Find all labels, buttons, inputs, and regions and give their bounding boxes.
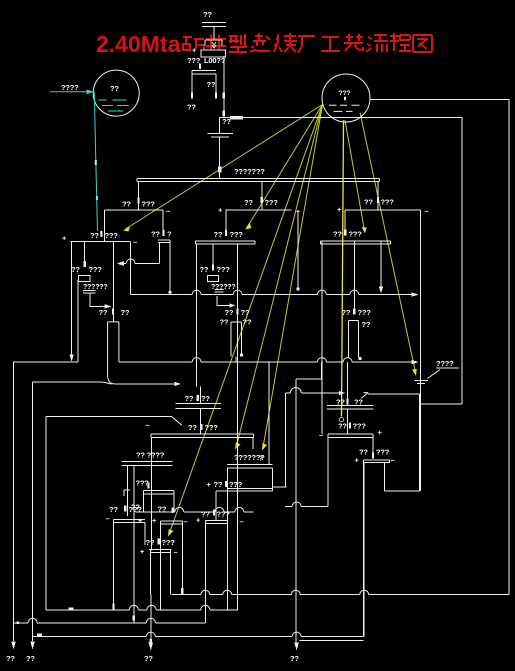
svg-text:–: – (133, 238, 137, 247)
N4 corner up is vessel E left (362, 461, 364, 637)
tick (84, 261, 86, 267)
title glyph jing (206, 35, 226, 52)
title glyph xuan (250, 33, 270, 52)
svg-text:??: ?? (207, 80, 216, 89)
screen box2 double line (192, 70, 216, 92)
svg-text:???: ??? (105, 231, 119, 240)
right screen overflow drop (long) (419, 210, 421, 491)
svg-text:??: ?? (121, 308, 130, 317)
svg-text:???: ??? (89, 265, 103, 274)
svg-text:??????: ?????? (83, 284, 107, 291)
svg-text:??: ?? (26, 654, 35, 663)
junction dot (169, 291, 172, 294)
arrow right (230, 303, 236, 307)
right clarified water tank circle (322, 74, 370, 122)
discharge with arrow (150, 595, 152, 642)
jig refuse drop line (130, 241, 132, 294)
flotation right stub (252, 437, 254, 449)
tick vessel D (113, 604, 115, 610)
arrow right (105, 304, 112, 308)
bus N2 wire hops (129, 605, 210, 610)
MID (14, 244, 419, 644)
vessel W1 sump (108, 322, 119, 384)
svg-text:???????: ??????? (234, 167, 265, 176)
drop from plates (127, 465, 129, 516)
long drop mid jig to flotation (237, 244, 239, 611)
bottom slurry bus hops (175, 507, 244, 512)
tailings T symbol (415, 380, 428, 383)
refuse bus D (46, 417, 182, 426)
svg-text:??: ?? (364, 198, 373, 207)
vessel v3 (231, 322, 241, 362)
svg-text:??: ?? (187, 103, 196, 112)
wire to tank (220, 117, 462, 119)
svg-text:??: ?? (151, 230, 160, 239)
left frame line 3 (45, 417, 47, 610)
wire (213, 27, 215, 40)
drop mid screen to jig (225, 210, 227, 230)
svg-text:???: ??? (162, 538, 176, 547)
vessel E left side long (363, 463, 365, 637)
ray to center filter (circle end) (342, 120, 344, 416)
filter plates mid (175, 404, 221, 409)
svg-text:–: – (319, 431, 323, 440)
junction tick (377, 197, 379, 203)
tick vessel B (181, 588, 183, 594)
svg-text:??: ?? (244, 198, 253, 207)
ray to right thickener (360, 113, 415, 372)
svg-text:??: ?? (201, 510, 210, 519)
tick on N4 (37, 634, 42, 637)
bottom bus N2 (46, 609, 237, 611)
tick (372, 453, 374, 459)
svg-text:??: ?? (214, 230, 223, 239)
drop jig to vessel W1 (113, 241, 115, 322)
water level dashes cyan (99, 100, 129, 111)
recycle wire into W1 drop (122, 243, 160, 264)
vessel C (205, 520, 227, 622)
drop with arrow into bus A (380, 241, 382, 288)
bus N1 wire hops (201, 590, 369, 595)
wire tank lower to frame (461, 118, 463, 404)
slurry bus A with hops (131, 294, 414, 296)
product arrow filter cake (149, 643, 154, 651)
slurry bus B with hops (119, 361, 414, 363)
arrow block on wire (230, 116, 243, 119)
title glyph chang (298, 36, 315, 53)
svg-text:??: ?? (99, 308, 108, 317)
svg-text:??: ?? (222, 117, 231, 126)
svg-text:???: ??? (187, 56, 201, 65)
svg-text:2.40Mta: 2.40Mta (96, 31, 181, 57)
drop bar to concentrate bar (372, 437, 374, 458)
svg-text:???: ??? (205, 423, 219, 432)
drop left screen to jig (103, 210, 105, 241)
svg-text:???: ??? (217, 265, 231, 274)
mid centrifuge plates (215, 290, 224, 293)
left drop of bar to hline (327, 437, 329, 506)
svg-text:??: ?? (290, 654, 299, 663)
drop to right screen (377, 181, 379, 209)
wire tank to right frame top (371, 99, 510, 595)
arrow bus B (412, 360, 419, 364)
tick (150, 639, 152, 643)
ray to mid screen (247, 105, 323, 228)
drop to elevator (84, 241, 86, 266)
leader line (428, 370, 441, 379)
tick on drop (133, 616, 135, 621)
drop mid screen overflow (297, 210, 299, 290)
junction tick (138, 198, 140, 204)
svg-text:??: ?? (188, 423, 197, 432)
svg-text:??: ?? (359, 448, 368, 457)
junction dot (16, 621, 19, 624)
svg-text:??: ?? (243, 318, 252, 327)
ray to left screen (126, 105, 323, 230)
svg-text:?? ????: ?? ???? (136, 451, 165, 460)
svg-text:??: ?? (362, 320, 371, 329)
svg-text:??: ?? (220, 318, 229, 327)
svg-text:??: ?? (144, 654, 153, 663)
vessel D (114, 519, 145, 610)
svg-text:–: – (166, 207, 170, 216)
left screen bar (104, 209, 163, 211)
arrow pump outlet (339, 391, 346, 395)
svg-text:????: ???? (61, 83, 79, 92)
svg-text:??: ?? (185, 394, 194, 403)
drop to vessel v4 (353, 241, 355, 309)
svg-text:??: ?? (214, 480, 223, 489)
feed plate symbol (202, 23, 226, 27)
svg-text:??: ?? (201, 394, 210, 403)
mid-box bottom bar (216, 489, 273, 491)
arrow down onto drain (69, 355, 73, 362)
title glyph xing (229, 34, 247, 52)
bottom bus N1 main (172, 594, 509, 596)
TOP ASSEMBLY (187, 10, 462, 178)
svg-text:??: ?? (203, 10, 212, 19)
YELLOW RAYS (123, 105, 417, 537)
drop to left screen (138, 181, 140, 210)
water level dashes white (329, 105, 360, 111)
svg-text:??: ?? (71, 265, 80, 274)
svg-text:??: ?? (200, 265, 209, 274)
left water tank circle (93, 70, 139, 116)
link hline to frame (420, 403, 462, 405)
wire centrifuge out (90, 293, 107, 306)
RIGHT (285, 210, 462, 636)
ray to right screen (345, 120, 365, 230)
tick (147, 483, 149, 489)
hline with hop over pump line (285, 506, 328, 508)
left frame line 2 (33, 382, 103, 641)
wire centrifuge out (217, 296, 233, 305)
title glyph cheng (390, 33, 411, 51)
bus C sump drain (115, 383, 177, 385)
svg-text:??: ?? (122, 200, 131, 209)
svg-text:???: ??? (381, 198, 395, 207)
title glyph liu (366, 35, 388, 52)
screen center chevrons (212, 42, 216, 48)
svg-text:??: ?? (333, 230, 342, 239)
vessel B (161, 521, 183, 610)
svg-text:??: ?? (338, 422, 347, 431)
filter plates right (327, 406, 374, 409)
svg-text:L00??: L00?? (204, 56, 226, 65)
svg-text:–: – (184, 517, 188, 526)
svg-text:–: – (391, 456, 395, 465)
drop jig left product (71, 241, 73, 356)
drop from vacuum plates (133, 465, 135, 622)
drop from bus C to filter cap (200, 386, 202, 434)
drop mid jig left (196, 244, 198, 387)
title text 2.40Mta (96, 31, 432, 57)
vessel E right side (384, 463, 386, 491)
svg-text:???: ??? (339, 90, 351, 97)
wire right branch (220, 56, 224, 133)
pump riser line (295, 379, 297, 644)
LEFT COLUMN (69, 210, 172, 384)
drop mid elevator (212, 244, 214, 266)
ray to mid-bottom cell B (263, 105, 323, 448)
title glyph gong (321, 37, 340, 51)
title glyph kuang (183, 37, 205, 52)
vessel F (149, 550, 172, 595)
short bottom line (299, 639, 363, 641)
bracket mark (124, 490, 130, 496)
svg-text:??: ?? (109, 505, 118, 514)
left frame line 1 (13, 362, 15, 641)
flotation bar left (151, 434, 254, 438)
bus N4 wire hops (146, 632, 301, 637)
bottom bus N3 (14, 622, 206, 624)
mid-box flotation cell (227, 465, 272, 611)
title glyph mei (274, 33, 297, 52)
svg-text:???: ??? (229, 480, 243, 489)
arrow bus C (175, 382, 182, 386)
drop from bus B to mid-box (268, 362, 270, 465)
drop to mid screen (261, 181, 263, 209)
junction tick (218, 167, 222, 173)
arrow down (30, 642, 35, 650)
title glyph yi (344, 34, 363, 51)
step vline (284, 393, 286, 487)
svg-text:???: ??? (358, 308, 372, 317)
svg-text:?: ? (167, 230, 172, 239)
elevator box (79, 276, 90, 282)
right screen bar (345, 209, 420, 211)
bus B wire hops (192, 358, 352, 363)
svg-text:???: ??? (230, 230, 244, 239)
svg-text:???: ??? (142, 200, 156, 209)
concentrate bar (364, 460, 390, 463)
bottom bus N4 (33, 636, 363, 638)
right jig bar (321, 241, 391, 244)
pump outlet hop (290, 388, 301, 394)
recycle wire hop (126, 259, 135, 264)
svg-text:??: ?? (342, 308, 351, 317)
svg-text:???: ??? (217, 510, 231, 519)
vessel v4 (349, 321, 359, 358)
svg-text:??: ?? (6, 654, 15, 663)
svg-text:–: – (174, 548, 178, 557)
tick (212, 265, 214, 271)
crusher box (201, 50, 225, 57)
svg-text:??: ?? (90, 231, 99, 240)
svg-text:??: ?? (146, 538, 155, 547)
tick (240, 354, 243, 357)
step hline (273, 486, 287, 488)
wire flag to box (368, 393, 420, 395)
junction tick on N2 (69, 608, 74, 611)
press box (385, 394, 420, 491)
mid elevator box (207, 275, 218, 281)
cyan feed arrow (50, 91, 88, 93)
vessel A (144, 490, 174, 512)
tick arrows under box2 (191, 93, 193, 99)
svg-text:???: ??? (136, 479, 150, 488)
svg-text:??: ?? (241, 308, 250, 317)
screen hat symbol (205, 40, 222, 46)
svg-text:–: – (146, 421, 150, 430)
svg-text:????: ???? (436, 359, 454, 368)
jig refuse vessel v2 (158, 240, 170, 295)
flotation left drop (151, 437, 153, 550)
bus N3 wire hops (28, 618, 155, 623)
junction dot (359, 357, 362, 360)
svg-text:???: ??? (129, 505, 143, 514)
arrow down (11, 642, 16, 650)
junction dot (297, 288, 300, 291)
main distribution header bar (137, 178, 379, 181)
curve join to bus C (103, 382, 113, 384)
svg-text:–: – (106, 514, 110, 523)
mid jig bar double (196, 241, 255, 244)
junction tick (261, 197, 263, 203)
svg-text:???: ??? (349, 230, 363, 239)
svg-text:???: ??? (353, 422, 367, 431)
HEADERS AND BARS (62, 178, 429, 491)
centrifuge plates (83, 291, 95, 294)
pump outlet hline with hop (285, 392, 341, 394)
tick (199, 64, 201, 70)
mid screen bar (226, 209, 292, 211)
feed vessel C (215, 491, 217, 521)
title glyph tu (413, 35, 432, 52)
flotation bar right (328, 434, 373, 438)
bottom slurry bus with hops (136, 511, 254, 513)
svg-text:??: ?? (225, 308, 234, 317)
svg-text:?: ? (259, 454, 264, 463)
svg-text:???: ??? (265, 198, 279, 207)
drop bus B to filter (347, 362, 349, 406)
svg-text:??: ?? (110, 84, 119, 93)
drop right jig refuse (321, 241, 323, 434)
BOTTOM (6, 362, 509, 663)
ray to mid-bottom cell A (237, 105, 323, 447)
drop filter to bar (347, 409, 349, 434)
svg-text:–: – (425, 207, 429, 216)
cyan downpipe (94, 92, 97, 231)
bus A wire hops (192, 290, 359, 295)
slime discharge arrow (294, 643, 299, 651)
magnetite capacitor symbol (208, 133, 234, 137)
drop left screen bar end (162, 210, 164, 231)
wire down to header (219, 137, 221, 179)
junction tick (223, 111, 225, 117)
svg-text:???: ??? (376, 448, 390, 457)
ray to bottom-left vessel (170, 105, 323, 534)
tick below label (344, 97, 346, 100)
drain bus B left segment (14, 280, 79, 362)
vacuum filter plates (122, 461, 173, 465)
arrow bus A (412, 292, 419, 296)
svg-text:??: ?? (158, 505, 167, 514)
pump feed from bus B (296, 362, 322, 379)
drop right screen to jig (344, 210, 346, 229)
TANKS (50, 70, 509, 595)
flag symbol (361, 393, 368, 399)
svg-text:–: – (240, 517, 244, 526)
